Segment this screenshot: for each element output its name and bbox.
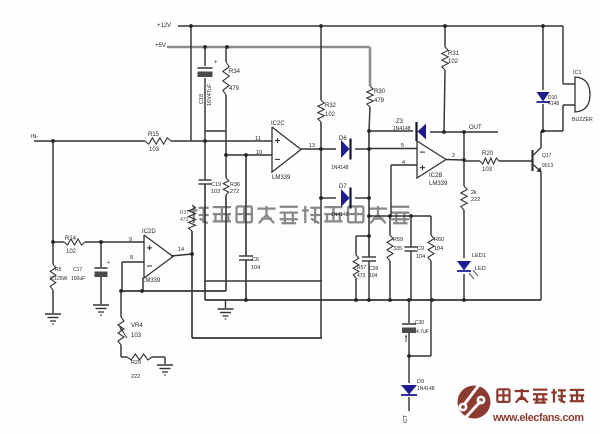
svg-text:335: 335 xyxy=(393,246,402,252)
svg-text:9: 9 xyxy=(129,237,132,243)
svg-text:104: 104 xyxy=(434,246,443,252)
svg-text:OUT: OUT xyxy=(469,125,482,131)
svg-text:IC2C: IC2C xyxy=(271,121,285,127)
svg-text:D9: D9 xyxy=(417,379,424,385)
svg-text:VR4: VR4 xyxy=(131,323,143,329)
svg-text:13: 13 xyxy=(309,143,315,149)
svg-text:Z3: Z3 xyxy=(396,119,404,125)
svg-text:103: 103 xyxy=(482,167,493,173)
svg-text:+5V: +5V xyxy=(155,43,166,49)
svg-text:R15: R15 xyxy=(148,132,160,138)
svg-text:11: 11 xyxy=(255,136,261,142)
svg-text:473: 473 xyxy=(180,217,189,223)
svg-text:D6: D6 xyxy=(339,136,347,142)
svg-text:R29: R29 xyxy=(131,360,141,366)
svg-text:IN-: IN- xyxy=(31,134,39,140)
svg-text:BUZZER: BUZZER xyxy=(572,117,593,123)
svg-text:R34: R34 xyxy=(229,69,241,75)
svg-text:4148: 4148 xyxy=(548,101,559,107)
svg-text:LM339: LM339 xyxy=(272,175,291,181)
svg-text:9013: 9013 xyxy=(542,163,553,169)
svg-text:16V47uF: 16V47uF xyxy=(207,83,213,106)
svg-text:R36: R36 xyxy=(230,182,240,188)
svg-text:14: 14 xyxy=(178,247,184,253)
svg-text:8: 8 xyxy=(130,255,133,261)
svg-text:+: + xyxy=(214,60,218,66)
svg-text:104: 104 xyxy=(251,265,260,271)
svg-text:102: 102 xyxy=(325,112,336,118)
svg-text:LM339: LM339 xyxy=(429,181,448,187)
svg-text:D7: D7 xyxy=(339,184,347,190)
svg-text:C28: C28 xyxy=(369,266,378,272)
svg-text:+12V: +12V xyxy=(157,23,171,29)
svg-text:1N4148: 1N4148 xyxy=(417,386,435,392)
svg-text:R37: R37 xyxy=(180,210,189,216)
svg-text:R32: R32 xyxy=(325,103,337,109)
svg-text:103: 103 xyxy=(131,333,142,339)
svg-text:100uF: 100uF xyxy=(71,276,85,282)
svg-text:0.125W: 0.125W xyxy=(50,276,68,282)
svg-text:+: + xyxy=(107,260,110,266)
svg-text:479: 479 xyxy=(229,86,240,92)
svg-text:R5: R5 xyxy=(55,267,62,273)
svg-text:479: 479 xyxy=(374,98,385,104)
svg-text:LED: LED xyxy=(475,266,486,272)
svg-text:1N4148: 1N4148 xyxy=(393,126,411,132)
svg-text:IC2B: IC2B xyxy=(429,173,442,179)
svg-text:222: 222 xyxy=(131,374,140,380)
svg-text:C30: C30 xyxy=(415,320,424,326)
svg-text:R57: R57 xyxy=(357,265,366,271)
svg-text:LED1: LED1 xyxy=(472,253,486,259)
svg-text:104: 104 xyxy=(369,273,378,279)
svg-text:ICT: ICT xyxy=(403,415,409,423)
svg-text:1N4148: 1N4148 xyxy=(331,212,349,218)
svg-text:104: 104 xyxy=(416,254,425,260)
svg-text:R14: R14 xyxy=(65,236,77,242)
svg-text:103: 103 xyxy=(211,189,220,195)
svg-text:102: 102 xyxy=(448,59,459,65)
svg-text:C19: C19 xyxy=(211,182,221,188)
svg-text:2: 2 xyxy=(452,153,455,159)
svg-text:R31: R31 xyxy=(448,51,460,57)
svg-text:Q17: Q17 xyxy=(542,153,552,159)
svg-text:www.elecfans.com: www.elecfans.com xyxy=(492,412,584,424)
svg-text:222: 222 xyxy=(471,197,480,203)
svg-text:C18: C18 xyxy=(199,94,205,104)
svg-text:IC2D: IC2D xyxy=(142,229,156,235)
svg-text:4.7uF: 4.7uF xyxy=(416,329,429,335)
svg-text:R59: R59 xyxy=(393,237,403,243)
svg-text:C6: C6 xyxy=(252,257,259,263)
svg-text:2k: 2k xyxy=(471,190,477,196)
svg-text:1N4148: 1N4148 xyxy=(331,165,349,171)
svg-text:102: 102 xyxy=(66,249,77,255)
svg-text:473: 473 xyxy=(357,273,366,279)
svg-text:R60: R60 xyxy=(434,237,444,243)
svg-text:103: 103 xyxy=(149,147,160,153)
svg-text:C17: C17 xyxy=(73,267,82,273)
svg-text:IC1: IC1 xyxy=(573,70,582,76)
svg-text:C9: C9 xyxy=(417,246,424,252)
svg-text:LM339: LM339 xyxy=(142,278,161,284)
svg-text:R20: R20 xyxy=(482,151,494,157)
svg-text:272: 272 xyxy=(230,189,239,195)
svg-text:R30: R30 xyxy=(374,89,386,95)
